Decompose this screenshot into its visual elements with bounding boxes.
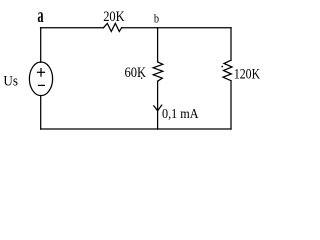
voltage source Us ellipse bbox=[29, 62, 52, 96]
wire: 120K bottom down to bottom-right corner bbox=[230, 81, 232, 129]
svg-text:Us: Us bbox=[3, 73, 18, 89]
svg-text:60K: 60K bbox=[125, 65, 147, 81]
wire: left branch, node a down to source top bbox=[40, 28, 42, 63]
wire: right branch, top-right corner down to 120K top bbox=[230, 28, 232, 61]
svg-text:20K: 20K bbox=[103, 9, 125, 25]
wire: 20K right lead to node b and top-right corner bbox=[122, 27, 231, 29]
svg-text:a: a bbox=[37, 5, 43, 27]
wire: source bottom down to bottom-left corner bbox=[40, 96, 42, 130]
resistor R 120K zigzag bbox=[223, 60, 232, 80]
wire: middle branch, node b down to 60K top bbox=[157, 28, 159, 62]
resistor R 20K zigzag bbox=[104, 23, 122, 31]
stray dot near 60K bbox=[141, 78, 142, 79]
wire: bottom rail bbox=[41, 128, 231, 130]
stray dot left of 120K bbox=[222, 66, 224, 68]
wire: top, node a to 20K left lead bbox=[41, 27, 104, 29]
svg-text:0,1 mA: 0,1 mA bbox=[162, 107, 199, 122]
wire: 60K bottom through current arrow to bottom rail bbox=[157, 81, 159, 129]
plus sign inside source bbox=[38, 71, 45, 73]
minus sign inside source bbox=[39, 84, 45, 86]
svg-text:b: b bbox=[154, 11, 159, 26]
current arrow head 0,1mA pointing down bbox=[154, 106, 158, 111]
resistor R 60K zigzag bbox=[153, 62, 163, 81]
svg-text:120K: 120K bbox=[234, 66, 261, 82]
